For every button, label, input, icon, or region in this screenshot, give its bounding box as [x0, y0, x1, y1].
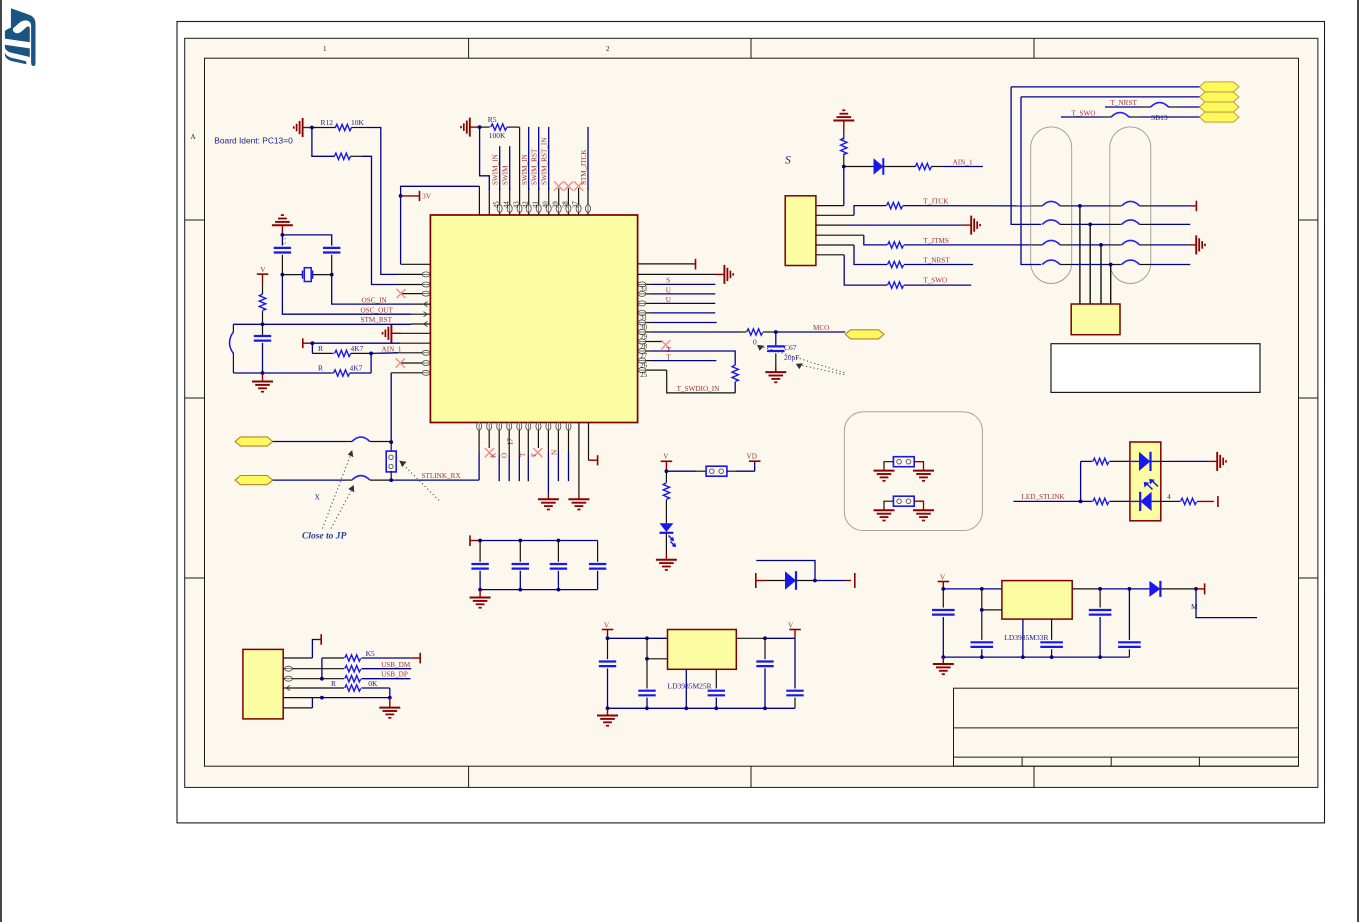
- resistor (AIN out): [883, 166, 915, 168]
- wire + resistor (LED bottom out): [1161, 500, 1172, 502]
- regulator body U: [668, 630, 737, 670]
- wire flag3 with solder bridge: [1105, 106, 1142, 108]
- pin25 T_SWDIO_IN: [638, 369, 667, 371]
- svg-text:37: 37: [573, 201, 580, 208]
- svg-text:OSC_IN: OSC_IN: [362, 296, 388, 304]
- wire xtal left to OSC_OUT: [282, 275, 411, 315]
- jumper (STLINK) vertical: [390, 442, 392, 452]
- svg-text:39: 39: [553, 201, 560, 208]
- bypass stub + capacitor: [715, 669, 717, 688]
- capacitor out b: [794, 638, 796, 688]
- regulator gnd stub: [685, 669, 687, 708]
- ground earth near R5: [461, 118, 470, 137]
- svg-text:V: V: [604, 621, 610, 629]
- solder bridge arc RX: [352, 476, 370, 481]
- svg-text:STM_JTCK: STM_JTCK: [580, 149, 588, 185]
- node crystal gnd: [281, 233, 285, 237]
- resistor pack body: [1071, 304, 1120, 335]
- svg-text:42: 42: [523, 201, 530, 208]
- diode (AIN): [844, 166, 874, 168]
- svg-text:T: T: [531, 453, 538, 457]
- bridge row1 T_JTCK: [1031, 205, 1042, 207]
- vertical join pin1-pin3: [321, 658, 323, 679]
- no-connect X bottom pin7: [533, 448, 542, 457]
- column tick marks top: [468, 38, 470, 58]
- leader arrows to solder bridges: [322, 457, 439, 529]
- jumper JP2: [893, 496, 914, 506]
- svg-text:4K7: 4K7: [350, 364, 363, 373]
- solder bridge arc TX: [352, 437, 370, 442]
- svg-text:1: 1: [323, 45, 327, 53]
- diode D: [767, 580, 786, 582]
- crystal X1: [282, 274, 302, 276]
- ground (inverted) above AIN resistor: [833, 110, 854, 120]
- svg-text:V: V: [940, 573, 946, 581]
- ST logo: [5, 8, 36, 66]
- node 3V: [399, 194, 403, 198]
- ground JP2 left: [874, 510, 895, 520]
- svg-text:Board Ident: PC13=0: Board Ident: PC13=0: [214, 136, 293, 146]
- svg-text:T_NRST: T_NRST: [923, 256, 950, 264]
- SWD pin4 T_JTMS: [816, 234, 864, 236]
- svg-text:R: R: [331, 679, 336, 688]
- power port VD: [754, 461, 756, 471]
- svg-text:4: 4: [1167, 494, 1171, 501]
- pin3 stub with no-connect: [401, 293, 430, 295]
- wire diode out to terminal: [815, 580, 846, 582]
- svg-text:3V: 3V: [422, 193, 432, 201]
- svg-text:C67: C67: [784, 343, 797, 352]
- svg-text:45: 45: [494, 201, 501, 208]
- resistor R12: [312, 127, 336, 129]
- terminal bar output: [1196, 588, 1204, 590]
- ground (inverted) above crystal caps: [272, 215, 293, 225]
- svg-text:100K: 100K: [489, 131, 506, 140]
- ground below regulator: [942, 657, 944, 664]
- wire output down-right: [1196, 589, 1257, 618]
- MCU top pin stubs: [500, 127, 588, 215]
- node xtal left: [281, 273, 285, 277]
- svg-text:T_SWO: T_SWO: [1072, 109, 1096, 117]
- resistor (LED bottom): [1081, 500, 1093, 502]
- 3V power rail wire: [401, 186, 480, 264]
- sheet inner drawing border: [205, 58, 1299, 766]
- top rail left: [608, 637, 668, 639]
- pin26: [638, 360, 652, 362]
- pin29 MCO row: [638, 331, 652, 333]
- svg-text:OSC_OUT: OSC_OUT: [361, 306, 394, 314]
- resistor (reset pullup): [262, 284, 264, 294]
- reset button B1: [232, 324, 234, 332]
- resistor R13 (unlabeled): [312, 128, 335, 157]
- wire diode loop: [756, 561, 815, 581]
- net flag (TX): [235, 437, 273, 446]
- MCU bottom pin glyphs: [477, 422, 482, 430]
- svg-text:SB13: SB13: [1151, 113, 1168, 122]
- net flag row1: [1199, 82, 1239, 92]
- bottom rail: [608, 707, 796, 709]
- capacitor in: [942, 589, 944, 608]
- inhibit column + capacitor: [981, 589, 983, 610]
- node AIN_1: [369, 352, 373, 356]
- no-connect X pin37: [574, 181, 583, 190]
- ground JP2 right: [913, 510, 934, 520]
- terminal bar left: [469, 535, 471, 546]
- sheet outer border: [177, 22, 1325, 823]
- SWD pin3 gnd: [816, 224, 850, 226]
- annotation leader arrows to C67: [760, 346, 844, 375]
- pin28 no-connect: [638, 341, 662, 343]
- node reset: [261, 322, 265, 326]
- node xtal right: [330, 273, 334, 277]
- bridge row3 T_JTMS: [1031, 244, 1042, 246]
- svg-text:0K: 0K: [368, 679, 378, 688]
- wire R5 net into MCU top: [488, 189, 490, 215]
- row tick marks right: [1299, 219, 1318, 221]
- resistor (T_SWDIO pull): [732, 365, 738, 382]
- ground below LED: [665, 533, 667, 554]
- pin31: [638, 312, 652, 314]
- sheet margin border (cream area): [185, 38, 1318, 787]
- capacitor C67: [775, 332, 777, 345]
- svg-text:N: N: [550, 449, 558, 455]
- svg-text:O: O: [500, 453, 508, 458]
- svg-text:R: R: [318, 364, 323, 373]
- no-connect X pin38: [564, 181, 573, 190]
- pin10 stub with no-connect: [400, 362, 430, 364]
- bridge row4 T_NRST: [1021, 97, 1041, 265]
- node R12-left junction: [310, 126, 314, 130]
- svg-text:0: 0: [753, 338, 757, 347]
- regulator gnd stub: [1022, 619, 1024, 657]
- wire STLINK_RX to MCU: [391, 479, 479, 481]
- note box (white): [1051, 344, 1260, 393]
- SWD pin2 T_JTCK: [816, 214, 854, 216]
- capacitor out a: [1099, 589, 1101, 608]
- svg-text:STM_RST: STM_RST: [361, 316, 393, 324]
- stadium outline left: [1031, 127, 1072, 284]
- wire MCO to flag: [776, 331, 846, 333]
- svg-text:40: 40: [543, 201, 550, 208]
- svg-text:T_JTMS: T_JTMS: [923, 237, 949, 245]
- svg-text:AIN_1: AIN_1: [953, 158, 973, 166]
- resistor R 0 (MCO): [747, 329, 763, 335]
- pin48 wire to terminal: [638, 263, 692, 265]
- net flag (RX): [235, 476, 273, 485]
- svg-text:X: X: [315, 493, 321, 502]
- wire LED top to earth: [1161, 460, 1170, 462]
- capacitor in (left): [607, 638, 609, 659]
- svg-text:STLINK_RX: STLINK_RX: [422, 472, 462, 480]
- LED anode-left (bottom): [1130, 500, 1140, 502]
- svg-text:V: V: [663, 453, 669, 461]
- wire T_JTCK to bridge matrix: [903, 205, 1031, 207]
- wire gnd rail to cap C2: [282, 235, 331, 246]
- wire R12 output to MCU pin1: [366, 128, 398, 275]
- ground below MCU (left): [547, 494, 549, 499]
- USB pin5 gnd: [283, 697, 322, 699]
- SWD pin1: [816, 205, 844, 207]
- inhibit column + capacitor: [646, 638, 648, 659]
- ground below reset cap: [262, 373, 264, 382]
- wire V to VD jumper: [666, 470, 696, 472]
- svg-text:4K7: 4K7: [351, 344, 364, 353]
- svg-text:VD: VD: [747, 453, 757, 461]
- LED anode-right (top): [1130, 460, 1139, 462]
- SWD pin5 T_NRST: [816, 244, 854, 246]
- top rail: [480, 540, 597, 542]
- ground below C67: [775, 366, 777, 372]
- resistor R5 100K: [480, 126, 490, 128]
- svg-text:R5: R5: [488, 115, 497, 124]
- node TX: [389, 440, 393, 444]
- svg-text:LD3985M25R: LD3985M25R: [668, 682, 712, 691]
- resistor (AIN top): [843, 131, 845, 140]
- bicolor LED body: [1130, 442, 1161, 521]
- svg-text:SWIM_IN: SWIM_IN: [492, 153, 500, 185]
- LED (COM): [660, 523, 674, 532]
- wire xtal right to OSC_IN: [332, 275, 411, 305]
- wire TX row: [273, 441, 345, 443]
- node AIN divider: [842, 165, 846, 169]
- power port 3V: [401, 195, 419, 197]
- wire STM_RST row: [233, 323, 411, 325]
- MCU top pin wires (blue): [500, 127, 588, 190]
- ground JP1 left: [874, 471, 895, 481]
- USB pin6 shield: [283, 707, 312, 709]
- wire 3V into MCU top: [478, 186, 480, 215]
- terminal bar row1: [1192, 205, 1196, 207]
- svg-text:44: 44: [504, 201, 511, 208]
- svg-text:LED_STLINK: LED_STLINK: [1022, 493, 1066, 501]
- no-connect X pin39: [554, 181, 563, 190]
- bottom rail: [480, 589, 597, 591]
- bottom rail: [943, 656, 1129, 658]
- wire T_JTMS to bridge matrix: [904, 244, 1031, 246]
- pin2 stub: [398, 284, 430, 286]
- pin9 AIN_1 stub: [398, 352, 430, 354]
- bridge row2: [1011, 87, 1041, 225]
- svg-text:41: 41: [533, 201, 540, 208]
- svg-text:38: 38: [562, 201, 569, 208]
- svg-text:K: K: [490, 452, 498, 458]
- terminal bar diode left: [755, 573, 757, 588]
- svg-text:SWIM: SWIM: [502, 165, 510, 185]
- pin33: [638, 283, 652, 285]
- pin27 T_SWDIO row: [638, 350, 652, 352]
- wire pin11 down to jumper: [390, 373, 392, 442]
- svg-text:USB_DP: USB_DP: [381, 671, 408, 679]
- svg-text:S: S: [785, 155, 791, 167]
- svg-text:SWIM_RST: SWIM_RST: [531, 148, 539, 185]
- svg-text:M: M: [1191, 602, 1198, 611]
- wire flag2: [1021, 96, 1199, 98]
- page edge left: [0, 0, 2, 922]
- jumper JP1: [893, 457, 914, 467]
- bypass stub + capacitor: [1051, 619, 1053, 640]
- wire R5 junction down to MCU: [480, 127, 490, 190]
- output rail: [1072, 588, 1100, 590]
- USB pin2 DM: [283, 668, 344, 670]
- bottom pin wires (blue): [499, 452, 568, 494]
- svg-text:T_JTCK: T_JTCK: [923, 197, 949, 205]
- USB pin4 resistor R 0K: [283, 687, 344, 689]
- pin32: [638, 293, 652, 295]
- svg-text:T_SWDIO_IN: T_SWDIO_IN: [677, 385, 721, 393]
- pin8 wire to AIN divider: [312, 342, 400, 344]
- resistor K5 (pullup): [322, 657, 344, 659]
- svg-text:R: R: [318, 344, 323, 353]
- resistor R 4K7 lower: [332, 372, 334, 374]
- stadium outline right: [1110, 127, 1151, 284]
- capacitor C1: [281, 235, 283, 246]
- pin OSC_OUT stub: [411, 313, 430, 315]
- top rail: [943, 588, 1002, 590]
- svg-text:LD3985M33R: LD3985M33R: [1004, 633, 1048, 642]
- ground below caps bank: [479, 590, 481, 598]
- net flag row2: [1199, 92, 1239, 102]
- ground earth near R12: [294, 118, 303, 137]
- wire flag4 with solder bridge SB13: [1061, 116, 1103, 118]
- svg-text:U: U: [666, 296, 672, 304]
- pin1 stub: [398, 273, 430, 275]
- column tick marks bottom: [468, 766, 470, 787]
- wires bridge matrix to resistor pack: [1080, 206, 1111, 304]
- svg-text:R12: R12: [321, 118, 334, 127]
- svg-text:17: 17: [507, 438, 514, 445]
- svg-text:2: 2: [606, 45, 610, 53]
- capacitor out b: [1128, 589, 1130, 640]
- svg-text:T: T: [519, 452, 527, 457]
- terminal bar below MCU pin36: [589, 459, 598, 461]
- wire RX row: [273, 479, 345, 481]
- page edge right: [1357, 0, 1359, 922]
- svg-text:SWIM_IN: SWIM_IN: [521, 153, 529, 185]
- output lead: [736, 637, 765, 639]
- capacitor (reset): [262, 324, 264, 335]
- node R5 junction: [478, 125, 482, 129]
- SWD pin6 T_SWO: [816, 254, 844, 256]
- wire R13 output to MCU pin2: [362, 156, 398, 284]
- capacitor out a: [764, 638, 766, 659]
- power bar terminal (AIN divider top): [302, 338, 304, 348]
- resistor (LED series): [665, 471, 667, 482]
- pin11 stub: [391, 372, 430, 374]
- capacitor bank C b: [519, 541, 521, 562]
- node MCO: [774, 330, 778, 334]
- resistor R 4K7 upper: [311, 343, 313, 353]
- title block: [954, 688, 1299, 766]
- ground below regulator: [607, 708, 609, 715]
- terminal bar LED bottom: [1217, 496, 1219, 507]
- ground below USB: [389, 698, 391, 708]
- node diode out: [813, 579, 817, 583]
- capacitor C2: [323, 248, 340, 253]
- row tick marks left: [185, 219, 205, 221]
- svg-text:U: U: [666, 286, 672, 294]
- terminal bar pin48: [695, 259, 697, 270]
- svg-text:Close to JP: Close to JP: [302, 532, 347, 542]
- svg-text:K5: K5: [366, 649, 375, 658]
- svg-text:V: V: [788, 621, 794, 629]
- svg-text:MCO: MCO: [813, 324, 829, 332]
- svg-text:T_NRST: T_NRST: [1111, 99, 1138, 107]
- MCU top pin numbers: [494, 201, 580, 208]
- wire 3V into MCU left: [401, 263, 431, 265]
- LED emission arrows: [1146, 480, 1158, 490]
- svg-text:43: 43: [514, 201, 521, 208]
- terminal bar K5: [411, 657, 419, 659]
- svg-text:10K: 10K: [351, 118, 365, 127]
- wire AIN node to pin1: [843, 167, 845, 206]
- pin47 wire to earth: [638, 273, 716, 275]
- svg-text:A: A: [191, 133, 196, 141]
- earth ground at MCU pin7: [383, 324, 392, 343]
- svg-text:25: 25: [640, 372, 647, 379]
- pin30: [638, 322, 652, 324]
- capacitor bank C a: [479, 541, 481, 562]
- net flag row4: [1199, 112, 1239, 122]
- svg-text:SWIM_RST_IN: SWIM_RST_IN: [541, 137, 549, 185]
- regulator body U: [1002, 581, 1072, 620]
- ground below MCU (right): [578, 494, 580, 499]
- svg-text:USB_DM: USB_DM: [381, 661, 411, 669]
- pin (U): [638, 302, 652, 304]
- resistor (LED top): [1081, 460, 1093, 462]
- jumper V/VD: [706, 466, 727, 476]
- capacitor bank C c: [557, 541, 559, 562]
- node AIN divider top: [311, 341, 315, 345]
- ground JP1 right: [913, 471, 934, 481]
- svg-text:T_SWO: T_SWO: [923, 277, 947, 285]
- svg-text:S: S: [666, 277, 670, 285]
- no-connect X bottom pin2: [485, 448, 494, 457]
- node RX: [389, 478, 393, 482]
- wire bottom rail to R lower: [233, 372, 331, 374]
- node reset bottom: [261, 371, 265, 375]
- USB pin1 VBUS: [283, 657, 312, 659]
- svg-text:V: V: [260, 266, 266, 274]
- MCU top pin glyphs: [497, 205, 502, 213]
- connector body (SWD): [785, 196, 816, 266]
- diode (output): [1149, 581, 1160, 597]
- net flag MCO: [845, 330, 884, 339]
- pin STM_RST stub: [411, 323, 430, 325]
- wire LED_STLINK: [1014, 500, 1081, 502]
- net flag row3: [1199, 102, 1239, 112]
- USB pin3 DP: [283, 678, 344, 680]
- wire flag1: [1011, 86, 1199, 88]
- capacitor bank C d: [597, 541, 599, 562]
- pin OSC_IN stub: [411, 303, 430, 305]
